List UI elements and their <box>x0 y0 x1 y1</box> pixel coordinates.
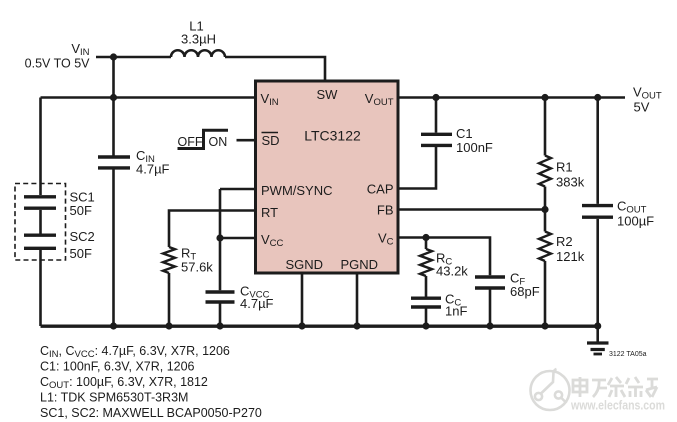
svg-text:LTC3122: LTC3122 <box>304 128 361 144</box>
svg-text:57.6k: 57.6k <box>181 260 213 275</box>
ground rail junction PGND <box>353 322 360 329</box>
svg-text:3122 TA05a: 3122 TA05a <box>609 351 647 358</box>
svg-text:50F: 50F <box>70 203 92 218</box>
wire C1 top <box>435 98 438 133</box>
resistor RC <box>420 249 432 276</box>
supercap SC2 <box>24 233 56 236</box>
svg-text:0.5V TO 5V: 0.5V TO 5V <box>25 57 91 71</box>
svg-text:PWM/SYNC: PWM/SYNC <box>261 183 333 198</box>
svg-text:4.7µF: 4.7µF <box>240 296 274 311</box>
wire left rail down to SC1 <box>39 98 42 196</box>
capacitor CC <box>411 297 441 300</box>
svg-text:SD: SD <box>262 133 280 148</box>
wire RT pin to resistor <box>169 211 254 248</box>
wire L1 to SW <box>225 57 325 80</box>
ground symbol stub <box>596 326 599 342</box>
svg-text:OFF: OFF <box>178 135 203 149</box>
node VCC junction <box>216 234 223 241</box>
ground rail junction RT <box>165 322 172 329</box>
wire R1 top <box>544 98 547 156</box>
node VC/RC junction <box>422 234 429 241</box>
svg-text:121k: 121k <box>556 249 585 264</box>
ground rail <box>41 325 598 328</box>
svg-text:4.7µF: 4.7µF <box>136 162 170 177</box>
ground rail junction R2 <box>541 322 548 329</box>
svg-text:R2: R2 <box>556 234 573 249</box>
resistor R2 <box>539 232 551 262</box>
wire SC2 to ground rail <box>39 250 42 326</box>
wire VOUT rail <box>400 96 626 99</box>
node VOUT/C1 junction <box>432 94 439 101</box>
capacitor COUT <box>582 204 613 207</box>
ground rail junction CIN <box>110 322 117 329</box>
wire VC pin to CF branch <box>400 238 491 276</box>
wire R1 bottom <box>544 187 547 210</box>
capacitor CF <box>475 275 505 278</box>
wire RC top <box>425 238 428 250</box>
IC U1 LTC3122 body <box>256 81 399 273</box>
supercap SC1 <box>24 195 56 198</box>
capacitor C1 <box>421 133 452 136</box>
svg-text:100µF: 100µF <box>617 214 654 229</box>
wire CC bottom <box>425 309 428 327</box>
svg-text:5V: 5V <box>634 100 650 115</box>
node VOUT/COUT junction <box>594 94 601 101</box>
svg-text:FB: FB <box>377 203 394 218</box>
node VIN top junction <box>110 53 117 60</box>
inductor L1 <box>171 50 225 57</box>
wire VCC pin stub <box>220 237 254 240</box>
ground rail junction SGND <box>298 322 305 329</box>
wire FB pin to R1/R2 node <box>400 208 546 211</box>
svg-text:C1: C1 <box>456 126 473 141</box>
node VIN rail junction <box>110 94 117 101</box>
wire RT bottom <box>168 273 171 326</box>
svg-text:SC1, SC2: MAXWELL BCAP0050-P27: SC1, SC2: MAXWELL BCAP0050-P270 <box>40 406 262 420</box>
svg-text:SC2: SC2 <box>70 229 95 244</box>
ground rail junction CF <box>486 322 493 329</box>
wire SGND <box>301 274 304 326</box>
wire C1 bottom to CAP pin <box>400 147 437 189</box>
wire R2 bottom <box>544 261 547 326</box>
svg-text:CAP: CAP <box>367 182 394 197</box>
ground rail junction CC <box>422 322 429 329</box>
resistor R1 <box>539 156 551 187</box>
wire SD pin stub <box>237 139 255 142</box>
svg-text:50F: 50F <box>70 246 92 261</box>
wire CIN bottom <box>112 170 115 327</box>
svg-text:1nF: 1nF <box>445 304 467 319</box>
svg-text:L1: TDK SPM6530T-3R3M: L1: TDK SPM6530T-3R3M <box>40 391 188 405</box>
svg-text:RT: RT <box>261 205 278 220</box>
wire CIN top <box>112 98 115 156</box>
svg-text:R1: R1 <box>556 160 573 175</box>
ground symbol bars <box>587 341 609 344</box>
wire PWM/SYNC to vertical <box>220 188 254 191</box>
wire VIN rail horizontal to pin VIN <box>41 96 255 99</box>
wire RC to CC <box>425 276 428 297</box>
svg-text:SW: SW <box>317 87 339 102</box>
svg-text:3.3µH: 3.3µH <box>181 32 216 47</box>
svg-text:43.2k: 43.2k <box>436 264 468 279</box>
svg-text:CIN, CVCC: 4.7µF, 6.3V, X7R, 1: CIN, CVCC: 4.7µF, 6.3V, X7R, 1206 <box>40 344 230 360</box>
ground rail junction COUT/GND <box>594 322 601 329</box>
wire PGND <box>356 274 359 326</box>
wire R2 top <box>544 210 547 232</box>
wire VIN node vertical <box>112 57 115 98</box>
svg-text:383k: 383k <box>556 175 585 190</box>
capacitor CIN <box>98 155 130 158</box>
wire COUT bottom <box>596 219 599 326</box>
svg-text:www.elecfans.com: www.elecfans.com <box>570 399 665 413</box>
wire PWM/SYNC vertical down to CVCC <box>219 189 222 290</box>
svg-text:C1: 100nF, 6.3V, X7R, 1206: C1: 100nF, 6.3V, X7R, 1206 <box>40 360 195 374</box>
svg-text:SGND: SGND <box>286 257 324 272</box>
svg-text:ON: ON <box>209 135 228 149</box>
svg-text:PGND: PGND <box>341 257 379 272</box>
capacitor CVCC <box>206 290 235 293</box>
resistor RT <box>163 247 175 273</box>
dashed box around SC1/SC2 <box>15 184 66 261</box>
wire COUT top <box>596 98 599 204</box>
watermark chinese text 电子发烧友 <box>573 377 658 397</box>
node FB junction <box>541 206 548 213</box>
ground rail junction CVCC <box>216 322 223 329</box>
wire SC1 to SC2 <box>39 210 42 234</box>
wire CF bottom <box>489 290 492 327</box>
svg-text:100nF: 100nF <box>456 140 493 155</box>
watermark logo circle <box>531 369 570 410</box>
OFF/ON step waveform <box>178 130 229 148</box>
wire CVCC bottom <box>219 304 222 327</box>
wire VIN terminal to L1 <box>96 56 171 59</box>
node VOUT/R1 junction <box>541 94 548 101</box>
svg-text:68pF: 68pF <box>510 284 540 299</box>
